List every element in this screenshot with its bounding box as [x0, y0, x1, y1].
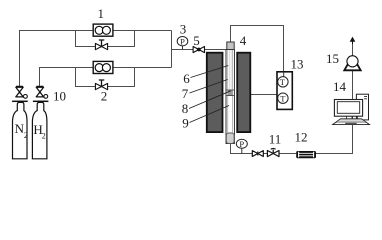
wire reactor top loop to box 13 [231, 26, 284, 78]
svg-text:15: 15 [326, 51, 339, 66]
mass flow controller 2 [93, 61, 113, 73]
bypass valve of line 2 [95, 80, 107, 90]
svg-text:8: 8 [182, 101, 189, 116]
wire loop2 bypass [76, 68, 135, 87]
svg-text:P: P [180, 36, 185, 46]
regulator valve on H2 cylinder [33, 86, 49, 101]
furnace block right [237, 53, 250, 132]
svg-text:9: 9 [182, 115, 189, 130]
svg-text:2: 2 [101, 88, 108, 103]
vent arrow [352, 39, 354, 45]
reactor top fitting [227, 42, 234, 50]
wire reactor bottom outlet [231, 143, 297, 154]
svg-text:14: 14 [333, 79, 347, 94]
svg-text:P: P [239, 139, 244, 149]
indicator box 13 [277, 72, 292, 110]
svg-text:5: 5 [193, 33, 200, 48]
wire loop1 outlet [113, 30, 172, 32]
filter 12 [296, 151, 316, 158]
svg-text:10: 10 [53, 88, 66, 103]
computer 14 [333, 94, 370, 124]
svg-text:11: 11 [269, 131, 282, 146]
N2 gas cylinder [13, 102, 28, 158]
reactor tube 4 [226, 50, 234, 144]
wire merge junction [171, 31, 173, 68]
svg-text:13: 13 [291, 57, 304, 72]
keyboard [333, 119, 370, 125]
wire loop1 bypass [76, 31, 135, 47]
svg-text:T: T [280, 93, 286, 103]
svg-text:2: 2 [42, 131, 46, 140]
monitor feet [347, 116, 358, 119]
leader line 8 [189, 91, 231, 109]
wire N2 riser and loop1 feed [20, 31, 94, 88]
monitor [334, 100, 362, 117]
svg-text:4: 4 [240, 33, 247, 48]
mass flow controller 1 [93, 24, 113, 36]
valve 5 [193, 47, 204, 53]
wire loop2 outlet [113, 67, 172, 69]
svg-text:3: 3 [180, 21, 187, 36]
leader line 7 [190, 80, 228, 94]
wire reactor to thermometer [251, 94, 278, 96]
leader line 6 [191, 66, 229, 78]
wire to reactor [172, 49, 228, 51]
svg-text:T: T [280, 77, 286, 87]
svg-text:12: 12 [295, 129, 308, 144]
svg-text:7: 7 [182, 86, 189, 101]
svg-text:6: 6 [183, 71, 190, 86]
svg-text:2: 2 [24, 131, 28, 140]
bypass valve of line 1 [95, 40, 107, 50]
leader line 9 [190, 106, 230, 123]
wire H2 riser and loop2 feed [40, 68, 94, 88]
regulator valve on N2 cylinder [12, 86, 28, 101]
drain valve [252, 151, 263, 157]
wire from filter to computer riser [316, 40, 353, 154]
tower case [356, 94, 368, 120]
furnace block left [207, 53, 223, 132]
valve 11 [267, 148, 279, 156]
pressure gauge 3 [177, 36, 188, 49]
H2 gas cylinder [32, 102, 47, 158]
pressure gauge bottom [236, 139, 247, 154]
soap film flow meter 15 [344, 56, 360, 71]
svg-text:1: 1 [98, 6, 105, 21]
